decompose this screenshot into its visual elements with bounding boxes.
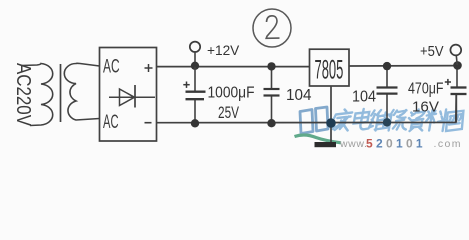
capacitor C3 plates (377, 88, 398, 94)
watermark url www.520101.com (339, 137, 462, 151)
wire 7805 ground pin (330, 86, 332, 143)
bridge diode D (109, 85, 155, 108)
svg-text:470μF: 470μF (408, 80, 444, 97)
node dot +12V rail (191, 62, 199, 70)
watermark logo book (300, 107, 328, 134)
char 料 (425, 110, 448, 132)
svg-text:AC: AC (103, 112, 119, 133)
svg-text:104: 104 (352, 89, 376, 106)
wire +12V stub (194, 52, 196, 67)
node dot C1 bottom (191, 119, 199, 127)
circled number 2 (253, 9, 291, 47)
ground symbol (315, 142, 337, 147)
svg-text:+5V: +5V (420, 43, 444, 60)
svg-text:104: 104 (286, 87, 312, 104)
svg-text:1000μF: 1000μF (208, 85, 255, 102)
bridge rectifier BR1 box (100, 48, 157, 142)
svg-text:16V: 16V (412, 99, 439, 116)
bridge minus pin label (145, 122, 152, 124)
capacitor C2 plates (264, 89, 280, 96)
bridge plus pin label (145, 64, 153, 72)
capacitor C1 plates (186, 92, 206, 100)
capacitor C3 104 wires (386, 66, 388, 122)
terminal +12V circle (190, 42, 200, 52)
watermark logo swoosh (295, 135, 342, 143)
svg-text:www.: www. (339, 138, 368, 150)
node dot C2 bottom (267, 119, 275, 127)
char 网 (445, 111, 464, 131)
capacitor C4 polarity plus (445, 79, 451, 85)
wire top rail left (bridge + to 7805 in) (157, 66, 310, 68)
capacitor C1 1000uF wires (194, 67, 196, 123)
svg-text:7805: 7805 (315, 54, 344, 84)
label AC220V (rotated) (12, 63, 34, 127)
capacitor C4 470uF wires (455, 66, 458, 123)
node dot C3 top (383, 62, 391, 70)
svg-text:.com: .com (434, 138, 462, 150)
wire top rail right (7805 out to +5V node) (349, 65, 458, 67)
watermark chinese text 家电维修资料网 (332, 109, 464, 131)
char 电 (353, 109, 371, 129)
regulator U1 7805 box (310, 49, 350, 86)
node dot ground rail (326, 118, 336, 128)
svg-text:25V: 25V (218, 103, 239, 122)
transformer T1 primary winding (22, 64, 53, 126)
char 资 (407, 110, 425, 132)
capacitor C4 plates (451, 88, 467, 95)
terminal +5V circle (450, 45, 461, 56)
svg-text:AC: AC (103, 57, 120, 78)
capacitor C1 polarity plus (183, 82, 189, 88)
capacitor C2 104 wires (271, 67, 273, 123)
char 维 (369, 110, 391, 131)
wire bottom rail (157, 94, 457, 123)
svg-text:520101: 520101 (366, 137, 426, 151)
char 家 (332, 110, 352, 131)
char 修 (388, 110, 409, 131)
svg-text:AC220V: AC220V (12, 63, 34, 127)
node dot +5V rail (453, 61, 462, 70)
transformer T1 secondary winding (64, 63, 99, 120)
node dot C2 top (267, 62, 275, 70)
wire +5V stub (455, 55, 458, 65)
svg-text:+12V: +12V (207, 42, 240, 58)
node dot C3 bottom (383, 118, 391, 126)
transformer T1 core (60, 64, 62, 122)
